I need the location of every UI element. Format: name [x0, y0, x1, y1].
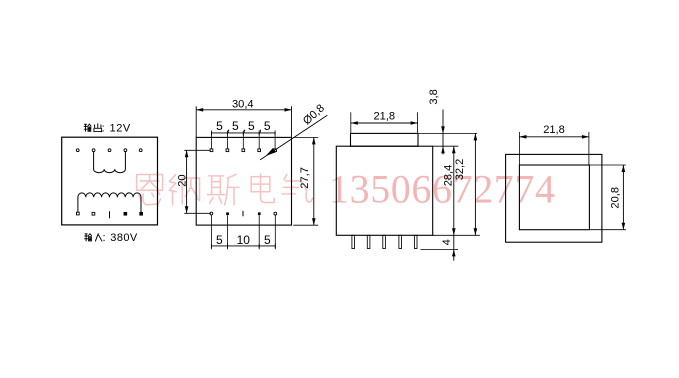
- svg-text:28,4: 28,4: [442, 165, 454, 187]
- svg-text:5: 5: [232, 119, 239, 133]
- svg-text:3,8: 3,8: [428, 89, 440, 104]
- dimension 21,8 (view3): [350, 112, 352, 133]
- transformer T1 schematic outline box: [62, 137, 158, 225]
- svg-text:20: 20: [176, 174, 188, 186]
- dimension 5 10 5: [210, 215, 212, 249]
- dimension 27,7: [293, 136, 318, 138]
- svg-text:5: 5: [264, 119, 271, 133]
- pins bottom row of view2: [210, 212, 213, 215]
- watermark char En: [137, 174, 163, 204]
- svg-text:21,8: 21,8: [543, 124, 565, 136]
- svg-text:5: 5: [264, 233, 271, 247]
- dimension 30,4: [195, 106, 197, 137]
- dimension 20,8: [589, 164, 626, 166]
- terminal pins bottom row: [77, 212, 80, 215]
- watermark char Qi: [282, 174, 313, 201]
- watermark char Si: [207, 174, 239, 204]
- extension lines right side view3: [418, 132, 477, 134]
- watermark char Na: [169, 174, 199, 204]
- view3 pins: [352, 235, 355, 248]
- svg-text:30,4: 30,4: [232, 99, 254, 111]
- terminal pins top row: [76, 149, 79, 152]
- svg-text:12V: 12V: [110, 123, 131, 135]
- dimension 5,5,5,5 pin pitch: [212, 132, 276, 134]
- dimension 20: [184, 149, 210, 151]
- view3 top lamination block: [351, 133, 419, 146]
- watermark char Dian: [251, 174, 274, 203]
- svg-text:20,8: 20,8: [610, 187, 622, 209]
- leader and label diameter 0,8: [260, 115, 327, 160]
- svg-text:,: ,: [227, 120, 230, 134]
- svg-text:,: ,: [243, 120, 246, 134]
- view4 inner bobbin: [519, 165, 589, 230]
- svg-text:21,8: 21,8: [374, 110, 396, 122]
- svg-text:27,7: 27,7: [299, 167, 311, 189]
- svg-text:380V: 380V: [110, 232, 138, 244]
- pins top row of view2: [210, 149, 213, 152]
- dimension 21,8 (view4): [518, 132, 520, 165]
- view2 body outline: [196, 137, 291, 225]
- view4 outer core: [506, 154, 602, 242]
- view3 main body: [336, 146, 432, 235]
- svg-text:10: 10: [237, 233, 251, 247]
- svg-text:5: 5: [216, 119, 223, 133]
- primary winding L1: [77, 197, 79, 213]
- secondary winding L2: [93, 152, 95, 170]
- label input voltage: [85, 234, 92, 241]
- svg-text:5: 5: [248, 119, 255, 133]
- svg-text:,: ,: [259, 120, 262, 134]
- label output voltage: [84, 124, 91, 131]
- dimension 28,4: [453, 146, 455, 235]
- dimension 3,8: [442, 110, 444, 155]
- svg-text:4: 4: [441, 239, 453, 245]
- dimension 32,2: [474, 133, 476, 235]
- svg-text:32,2: 32,2: [454, 159, 466, 181]
- svg-text:5: 5: [216, 233, 223, 247]
- svg-text::: :: [102, 122, 105, 134]
- dimension 4 pin length: [453, 235, 455, 260]
- svg-text::: :: [102, 232, 105, 244]
